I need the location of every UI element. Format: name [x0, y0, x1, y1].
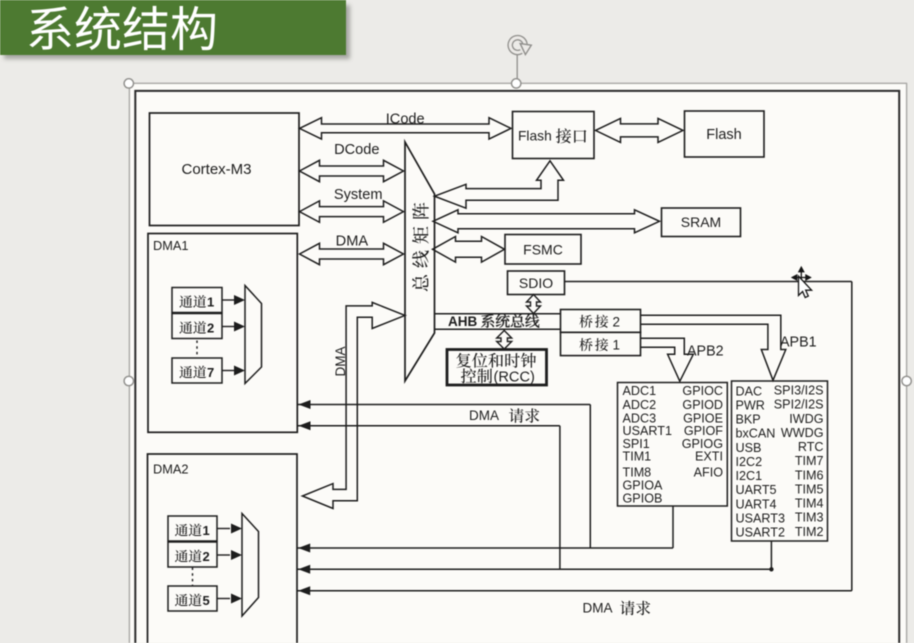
svg-text:UART4: UART4 [736, 497, 777, 511]
bus arrow ICode [300, 118, 512, 139]
bridge arrow APB2 [641, 338, 694, 381]
bus arrow System [300, 201, 404, 222]
wire DMA request to DMA2 (from APB1) [298, 568, 772, 570]
svg-text:USB: USB [736, 441, 762, 455]
svg-text:DMA: DMA [333, 347, 348, 377]
svg-text:EXTI: EXTI [695, 450, 723, 464]
wire channel to funnel [222, 299, 234, 301]
svg-text:PWR: PWR [736, 398, 765, 412]
block DMA1 通道7 [172, 358, 222, 383]
block SRAM [662, 208, 741, 237]
svg-text:DAC: DAC [736, 384, 763, 398]
bus arrow DCode [300, 160, 404, 181]
svg-text:TIM3: TIM3 [795, 511, 824, 525]
block 桥接1 [561, 332, 641, 355]
svg-text:USART3: USART3 [736, 511, 785, 525]
svg-text:APB2: APB2 [687, 344, 724, 360]
bus matrix 总线矩阵 [405, 142, 435, 381]
svg-text:Cortex-M3: Cortex-M3 [181, 161, 251, 178]
title bar 系统结构 [0, 0, 346, 55]
bus arrow matrix-SRAM [433, 210, 660, 233]
junction dot [769, 567, 773, 571]
selection frame top [129, 82, 907, 84]
svg-text:SRAM: SRAM [681, 214, 721, 230]
svg-text:DMA2: DMA2 [153, 462, 189, 477]
svg-text:2: 2 [207, 320, 214, 335]
label DMA vertical [333, 347, 348, 377]
block FSMC [505, 235, 581, 265]
svg-text:2: 2 [613, 314, 621, 329]
svg-text:AHB: AHB [448, 314, 477, 329]
bus arrow DMA matrix-DMA2 (bent) [302, 302, 405, 508]
svg-text:1: 1 [203, 523, 210, 538]
svg-text:APB1: APB1 [780, 335, 817, 351]
svg-text:(RCC): (RCC) [494, 370, 535, 386]
block DMA1 通道2 [172, 314, 222, 339]
block DMA2 通道1 [168, 516, 217, 541]
handle right-middle [902, 376, 911, 385]
svg-text:1: 1 [207, 294, 214, 309]
svg-text:ICode: ICode [386, 111, 425, 127]
svg-text:ADC1: ADC1 [623, 384, 657, 398]
bus arrow matrix-FSMC [433, 237, 505, 263]
svg-text:TIM2: TIM2 [795, 525, 824, 539]
block 桥接2 [561, 310, 641, 333]
wire channel to funnel [217, 554, 230, 556]
rotation handle icon [510, 38, 525, 53]
svg-text:Flash: Flash [706, 127, 741, 143]
svg-text:bxCAN: bxCAN [736, 427, 776, 441]
mouse move cursor [792, 267, 811, 297]
selection frame right [906, 83, 908, 643]
block Flash 接口 [513, 112, 595, 159]
svg-text:GPIOA: GPIOA [623, 478, 663, 492]
svg-text:AFIO: AFIO [694, 465, 724, 479]
svg-text:RTC: RTC [798, 440, 824, 454]
svg-text:UART5: UART5 [736, 483, 777, 497]
bus arrow SDIO-AHB [527, 295, 541, 314]
block DMA2 通道5 [168, 586, 217, 611]
svg-text:TIM7: TIM7 [795, 454, 824, 468]
selection frame left [128, 83, 130, 643]
svg-text:DMA1: DMA1 [153, 238, 189, 253]
handle top-left [124, 79, 133, 88]
svg-text:TIM8: TIM8 [623, 465, 652, 479]
svg-text:TIM4: TIM4 [795, 497, 824, 511]
block DMA1 [148, 234, 297, 433]
svg-text:DCode: DCode [334, 142, 379, 158]
block APB2 peripherals [618, 383, 728, 507]
svg-text:System: System [334, 187, 383, 203]
block DMA1 通道1 [172, 288, 222, 313]
wire SDIO request riser [851, 282, 853, 591]
bus arrow AHB-RCC [497, 331, 512, 350]
svg-text:TIM5: TIM5 [795, 482, 824, 496]
title bar shadow [4, 5, 350, 59]
bus arrow DMA (DMA1 to matrix) [300, 243, 404, 264]
diagram white backdrop [130, 84, 906, 643]
block APB1 peripherals [732, 381, 828, 541]
svg-text:GPIOB: GPIOB [623, 492, 663, 506]
svg-text:TIM6: TIM6 [795, 468, 824, 482]
block DMA2 [148, 454, 298, 643]
svg-text:SDIO: SDIO [519, 275, 553, 291]
wire channel to funnel [222, 326, 234, 328]
svg-text:GPIOD: GPIOD [682, 398, 723, 412]
svg-text:FSMC: FSMC [523, 242, 563, 258]
svg-text:DMA: DMA [336, 234, 369, 250]
wire DMA request to DMA2 (from APB2) [298, 547, 674, 549]
funnel DMA2 [242, 514, 259, 617]
svg-text:USART2: USART2 [736, 526, 785, 540]
AHB 系统总线 band [434, 313, 561, 315]
block Cortex-M3 [150, 113, 300, 226]
block 复位和时钟控制(RCC) [447, 350, 547, 386]
svg-text:WWDG: WWDG [781, 426, 824, 440]
wire DMA request to DMA2 (from SDIO) [298, 590, 852, 592]
diagram border [135, 91, 899, 643]
svg-text:5: 5 [203, 593, 210, 608]
svg-text:BKP: BKP [736, 413, 761, 427]
funnel DMA1 [245, 286, 262, 384]
svg-text:I2C1: I2C1 [736, 469, 763, 483]
svg-text:SPI3/I2S: SPI3/I2S [774, 384, 824, 398]
rotation handle stem [516, 55, 518, 79]
dashed link DMA1 channels [196, 341, 198, 358]
dashed link DMA2 channels [192, 568, 194, 586]
wire DMA request to DMA1 (from APB2) [298, 404, 591, 406]
wire channel to funnel [217, 598, 230, 600]
block Flash [685, 111, 765, 157]
svg-text:2: 2 [203, 549, 210, 564]
wire channel to funnel [217, 528, 230, 530]
bridge arrow APB1 [641, 315, 786, 380]
handle top-middle [512, 79, 521, 88]
svg-text:DMA: DMA [583, 601, 613, 616]
svg-text:ADC2: ADC2 [623, 398, 657, 412]
bus arrow Flash接口-Flash [596, 118, 684, 142]
svg-text:TIM1: TIM1 [623, 450, 652, 464]
svg-text:1: 1 [613, 338, 621, 353]
svg-text:SPI2/I2S: SPI2/I2S [774, 398, 824, 412]
wire DMA request to DMA1 (from APB1) [298, 425, 560, 427]
wire channel to funnel [222, 370, 234, 372]
bus arrow matrix-Flash接口 (L shape) [435, 161, 564, 208]
svg-text:I2C2: I2C2 [736, 455, 763, 469]
block DMA2 通道2 [168, 542, 217, 567]
block SDIO [508, 271, 565, 295]
handle left-middle [124, 376, 133, 385]
svg-text:7: 7 [207, 365, 214, 380]
svg-text:DMA: DMA [469, 408, 499, 423]
svg-text:GPIOC: GPIOC [682, 384, 723, 398]
svg-text:Flash: Flash [518, 129, 552, 144]
svg-text:IWDG: IWDG [789, 412, 823, 426]
